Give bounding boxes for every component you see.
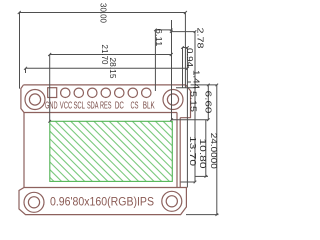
svg-text:28.15: 28.15 <box>108 58 118 79</box>
svg-text:24.0000: 24.0000 <box>209 133 219 169</box>
svg-text:1.44: 1.44 <box>192 70 202 89</box>
svg-text:BLK: BLK <box>143 100 155 111</box>
svg-text:CS: CS <box>131 100 139 111</box>
svg-text:SCL: SCL <box>73 100 85 111</box>
svg-text:6.60: 6.60 <box>204 91 214 114</box>
svg-text:10.80: 10.80 <box>198 139 208 169</box>
svg-text:0.96'80x160(RGB)IPS: 0.96'80x160(RGB)IPS <box>50 196 154 208</box>
svg-text:2.78: 2.78 <box>196 28 206 49</box>
svg-text:13.70: 13.70 <box>188 136 198 166</box>
svg-text:GND: GND <box>45 100 58 111</box>
svg-text:0.94: 0.94 <box>185 48 195 67</box>
svg-text:SDA: SDA <box>87 100 99 111</box>
svg-text:VCC: VCC <box>60 100 73 111</box>
svg-text:DC: DC <box>115 100 124 111</box>
svg-text:30.00: 30.00 <box>99 3 109 23</box>
svg-text:6.11: 6.11 <box>154 29 164 47</box>
svg-text:5.15: 5.15 <box>188 91 198 112</box>
svg-text:RES: RES <box>100 100 112 111</box>
